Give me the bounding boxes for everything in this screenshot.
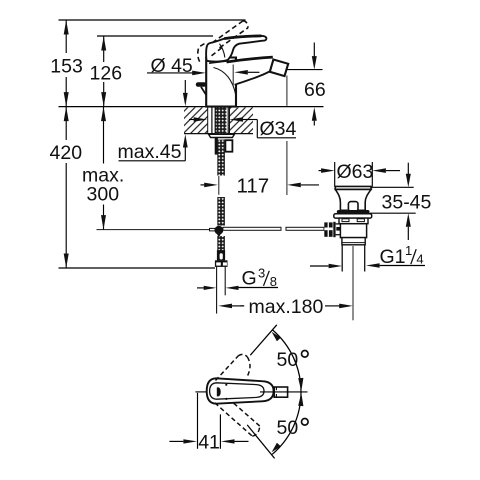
drain neck concave	[335, 189, 371, 210]
svg-text:50: 50	[277, 349, 299, 371]
pop-up rod knob on faucet	[196, 82, 207, 87]
spout projection line lower	[286, 141, 288, 195]
right shank wall lines	[227, 107, 229, 133]
reference line bottom of 420	[59, 267, 216, 269]
bottom view centerline right	[260, 391, 308, 393]
supply hose braided segment 2	[217, 140, 225, 176]
svg-text:Ø63: Ø63	[337, 161, 374, 183]
label D34 with leader and bracket	[189, 119, 194, 121]
drain seal ring	[337, 210, 370, 214]
lever cheek curve	[220, 44, 225, 58]
dimension 66	[313, 43, 315, 57]
countertop bottom line	[184, 133, 253, 135]
drain plug knob	[348, 202, 358, 212]
lever handle side view	[206, 36, 266, 62]
dimension max180	[240, 305, 243, 307]
supply hose braided segment 4	[217, 236, 225, 251]
small fitting below flange	[225, 140, 232, 152]
svg-text:300: 300	[87, 184, 120, 206]
reference line max300 level	[97, 229, 210, 231]
drain lower band	[342, 238, 365, 245]
dimension 420	[65, 107, 67, 268]
svg-text:Ø34: Ø34	[260, 118, 297, 140]
cartridge dome	[210, 58, 227, 64]
rod junction ball	[210, 228, 216, 231]
mounting flange below counter	[209, 134, 235, 137]
drain main body	[340, 224, 366, 238]
spout projection line upper	[286, 76, 288, 106]
reference line top (153 level)	[59, 19, 246, 21]
drain centerline	[352, 246, 354, 320]
pop-up actuator rod horizontal	[223, 227, 281, 230]
reference line spout outlet (66 level)	[288, 69, 323, 71]
dimension 153	[65, 20, 67, 107]
svg-text:max.180: max.180	[249, 296, 324, 318]
hose G3/8 nut ferrule	[217, 250, 225, 260]
dimension 35-45	[371, 186, 414, 188]
angle arc upper	[273, 330, 302, 392]
svg-text:1: 1	[405, 243, 412, 258]
drain tailpipe	[341, 245, 343, 272]
svg-text:3: 3	[258, 266, 265, 281]
spout lower edge	[235, 70, 273, 85]
supply hose braided segment 3	[217, 197, 225, 226]
reference line countertop surface	[59, 106, 324, 108]
bottom view stem neck	[274, 387, 287, 397]
faucet body inner curve	[214, 68, 236, 96]
angle ray upper	[250, 325, 276, 355]
drain top cylinder	[335, 186, 371, 189]
dimension 117	[201, 184, 205, 186]
drain tee hex nut	[324, 222, 332, 236]
svg-text:41: 41	[198, 431, 220, 453]
bottom view handle dots	[225, 384, 227, 386]
dimension 41	[197, 393, 199, 449]
svg-text:35-45: 35-45	[382, 192, 432, 214]
svg-text:153: 153	[50, 55, 83, 77]
faucet shank braided section in hole	[215, 107, 226, 134]
spout aerator tip	[270, 60, 288, 77]
bottom view handle outer	[207, 378, 274, 403]
countertop slab hatched left part	[184, 107, 208, 133]
left supply tube in hole	[211, 107, 213, 133]
svg-text:126: 126	[90, 62, 123, 84]
drain tee stub	[336, 223, 341, 225]
hose break tick	[218, 176, 220, 195]
angle arc lower	[272, 392, 301, 454]
svg-text:4: 4	[416, 252, 423, 267]
angle ray lower	[247, 425, 274, 459]
drain upper body with notches	[339, 218, 368, 224]
reference line 126 level	[97, 35, 213, 37]
drain flange	[334, 214, 372, 218]
label G1 1/4	[366, 263, 380, 268]
dimension max300	[103, 107, 105, 230]
svg-text:max.45: max.45	[118, 141, 182, 163]
svg-text:G: G	[242, 268, 257, 290]
bottom view centerline left stub	[195, 391, 206, 393]
svg-text:8: 8	[270, 274, 277, 289]
svg-text:117: 117	[237, 174, 270, 197]
dashed handle rotated up	[216, 354, 251, 380]
svg-text:420: 420	[50, 142, 83, 164]
spout upper edge	[227, 57, 273, 62]
bottom view handle black mark	[217, 387, 221, 396]
dashed raised lever	[198, 21, 248, 62]
shank dark collar	[215, 138, 218, 155]
dimension 126	[103, 36, 105, 107]
svg-text:50: 50	[277, 417, 299, 439]
dashed handle rotated down	[215, 403, 260, 437]
svg-text:G1: G1	[380, 246, 406, 268]
dimension D63	[334, 162, 336, 187]
mounting hole walls	[207, 107, 209, 134]
supply tube below nut	[216, 266, 218, 314]
svg-text:Ø 45: Ø 45	[151, 55, 193, 77]
D45 right-side arrow and extension (over body)	[234, 70, 248, 75]
hose G3/8 nut	[215, 260, 228, 267]
lever top edge thick line	[224, 36, 261, 39]
bottom view handle inner	[210, 383, 264, 399]
countertop slab hatched right part	[230, 107, 254, 133]
svg-text:66: 66	[304, 79, 326, 101]
label G3/8	[204, 286, 217, 290]
dimension G1 1/4 left arrow	[310, 265, 329, 267]
arc arrowheads	[298, 378, 303, 391]
faucet body	[206, 58, 236, 107]
